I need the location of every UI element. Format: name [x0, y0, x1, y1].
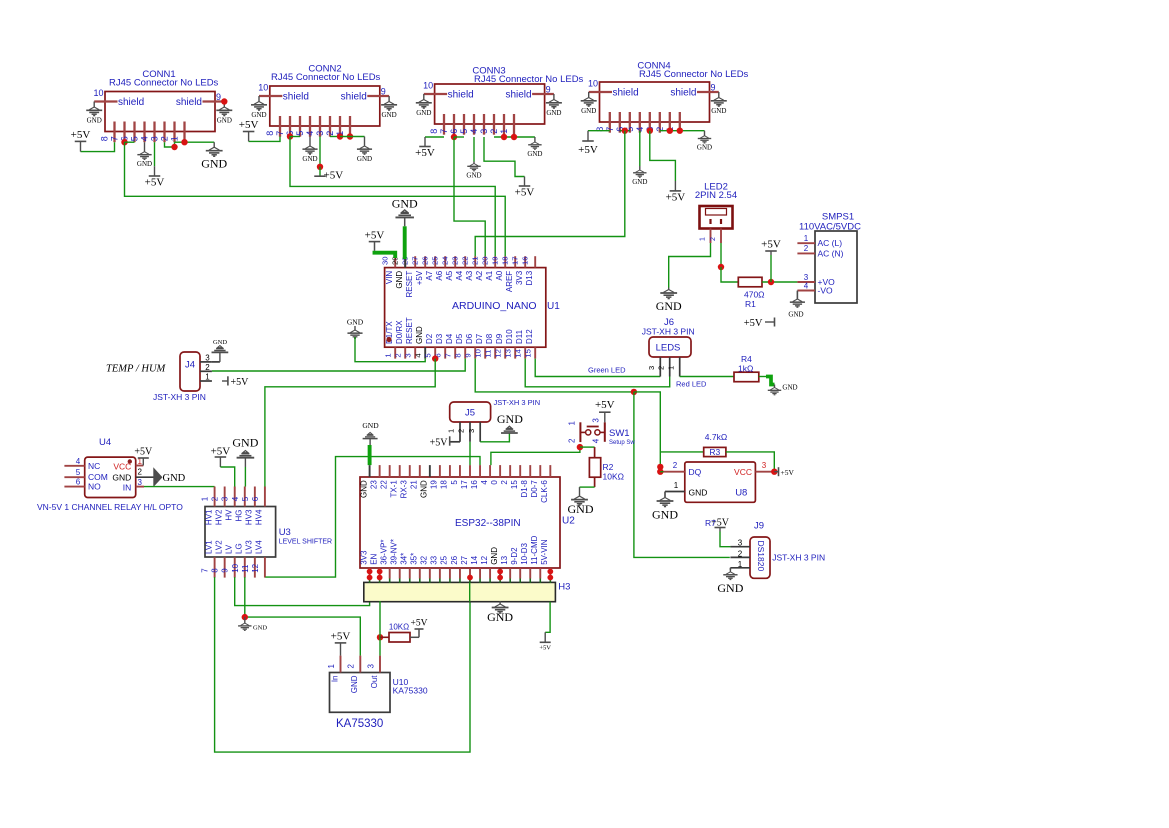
svg-text:shield: shield — [670, 88, 696, 99]
svg-text:35*: 35* — [410, 553, 419, 565]
svg-text:+5V: +5V — [761, 239, 781, 251]
svg-text:3V3: 3V3 — [359, 550, 368, 565]
svg-text:10: 10 — [231, 563, 240, 572]
svg-text:14: 14 — [513, 348, 522, 357]
svg-text:GND: GND — [350, 675, 359, 693]
svg-text:10KΩ: 10KΩ — [603, 472, 624, 482]
svg-text:27: 27 — [410, 256, 419, 265]
svg-text:4: 4 — [231, 496, 240, 501]
svg-text:ESP32--38PIN: ESP32--38PIN — [455, 518, 521, 529]
svg-text:7: 7 — [443, 353, 452, 357]
svg-text:D13: D13 — [525, 270, 534, 285]
svg-text:110VAC/5VDC: 110VAC/5VDC — [799, 222, 861, 233]
svg-text:2: 2 — [138, 468, 143, 477]
svg-text:16: 16 — [520, 256, 529, 265]
svg-text:U2: U2 — [562, 516, 575, 527]
svg-text:U3: U3 — [279, 527, 291, 538]
svg-text:HV3: HV3 — [245, 509, 254, 525]
svg-text:GND: GND — [347, 318, 364, 327]
svg-text:A0: A0 — [495, 270, 504, 280]
svg-text:1: 1 — [804, 234, 809, 243]
svg-text:R4: R4 — [741, 354, 752, 364]
svg-text:GND: GND — [416, 109, 431, 117]
svg-text:10KΩ: 10KΩ — [389, 623, 409, 632]
svg-text:D2: D2 — [425, 333, 434, 344]
svg-text:20: 20 — [480, 256, 489, 265]
svg-text:1: 1 — [170, 136, 180, 141]
svg-text:TX-1: TX-1 — [390, 480, 399, 498]
svg-text:+5V: +5V — [666, 192, 686, 204]
svg-text:26: 26 — [450, 555, 459, 564]
svg-text:IN: IN — [123, 483, 132, 493]
svg-text:NC: NC — [88, 461, 100, 471]
svg-text:D1-8: D1-8 — [520, 480, 529, 498]
svg-text:U1: U1 — [547, 301, 560, 312]
svg-text:EN: EN — [369, 553, 378, 564]
svg-text:1: 1 — [499, 129, 509, 134]
svg-text:0: 0 — [490, 480, 499, 485]
svg-text:GND: GND — [420, 480, 429, 498]
svg-text:A5: A5 — [445, 270, 454, 280]
svg-text:2: 2 — [347, 664, 356, 669]
svg-text:RJ45 Connector No LEDs: RJ45 Connector No LEDs — [271, 72, 381, 83]
svg-text:4: 4 — [592, 438, 601, 443]
svg-text:GND: GND — [362, 421, 379, 430]
svg-text:1: 1 — [447, 429, 456, 433]
svg-text:6: 6 — [251, 496, 260, 501]
svg-text:22: 22 — [379, 480, 388, 489]
svg-text:Out: Out — [370, 675, 379, 689]
svg-text:8: 8 — [100, 136, 110, 141]
svg-text:30: 30 — [380, 256, 389, 265]
svg-text:+5V: +5V — [365, 230, 385, 242]
svg-text:1: 1 — [568, 421, 577, 426]
svg-text:R7: R7 — [705, 518, 716, 528]
svg-text:VCC: VCC — [734, 467, 752, 477]
svg-text:1: 1 — [383, 353, 392, 357]
svg-text:D4: D4 — [445, 333, 454, 344]
svg-text:6: 6 — [449, 129, 459, 134]
svg-text:5: 5 — [130, 136, 140, 141]
svg-text:3: 3 — [479, 129, 489, 134]
svg-text:4: 4 — [305, 131, 315, 136]
svg-text:9: 9 — [221, 568, 230, 573]
svg-text:LV: LV — [225, 544, 234, 554]
svg-text:shield: shield — [118, 97, 144, 108]
svg-text:GND: GND — [395, 271, 404, 289]
svg-text:LV4: LV4 — [255, 540, 264, 554]
svg-text:19: 19 — [430, 480, 439, 489]
svg-text:GND: GND — [568, 502, 594, 516]
svg-text:21: 21 — [410, 480, 419, 489]
svg-text:3: 3 — [205, 354, 210, 363]
svg-text:32: 32 — [420, 555, 429, 564]
svg-text:GND: GND — [711, 107, 726, 115]
svg-text:2: 2 — [205, 363, 210, 372]
svg-text:GND: GND — [546, 109, 561, 117]
svg-text:10: 10 — [588, 79, 598, 89]
svg-text:9: 9 — [381, 87, 386, 97]
svg-text:36-VP*: 36-VP* — [379, 539, 388, 564]
svg-text:2: 2 — [211, 496, 220, 501]
svg-text:2: 2 — [738, 549, 743, 558]
svg-text:GND: GND — [466, 171, 481, 179]
svg-text:AC (L): AC (L) — [818, 238, 843, 248]
svg-text:17: 17 — [460, 480, 469, 489]
svg-text:J9: J9 — [754, 521, 764, 532]
svg-text:HG: HG — [235, 510, 244, 522]
svg-text:23: 23 — [369, 480, 378, 489]
svg-text:3: 3 — [150, 136, 160, 141]
svg-text:2PIN 2.54: 2PIN 2.54 — [695, 190, 737, 201]
svg-text:JST-XH 3 PIN: JST-XH 3 PIN — [494, 398, 541, 407]
svg-text:GND: GND — [497, 412, 523, 426]
svg-text:JST-XH 3 PIN: JST-XH 3 PIN — [772, 553, 825, 563]
svg-text:GND: GND — [788, 311, 803, 319]
svg-text:2: 2 — [160, 136, 170, 141]
svg-text:shield: shield — [505, 90, 531, 101]
svg-text:+5V: +5V — [781, 468, 795, 477]
svg-text:12: 12 — [493, 349, 502, 358]
svg-text:25: 25 — [440, 555, 449, 564]
svg-text:16: 16 — [470, 480, 479, 489]
svg-text:4: 4 — [413, 353, 422, 358]
svg-text:3: 3 — [221, 496, 230, 501]
svg-text:HV1: HV1 — [204, 509, 213, 525]
svg-text:D3: D3 — [435, 333, 444, 344]
svg-text:11: 11 — [483, 350, 492, 358]
svg-text:4: 4 — [76, 457, 81, 466]
svg-text:12: 12 — [480, 555, 489, 564]
svg-text:27: 27 — [460, 555, 469, 564]
svg-text:D0/RX: D0/RX — [395, 320, 404, 344]
svg-text:+5V: +5V — [331, 630, 351, 642]
svg-text:GND: GND — [656, 299, 682, 313]
svg-text:7: 7 — [110, 136, 120, 141]
svg-text:In: In — [330, 676, 339, 683]
svg-text:A6: A6 — [435, 270, 444, 280]
svg-text:TEMP / HUM: TEMP / HUM — [106, 364, 167, 375]
svg-text:D5: D5 — [455, 333, 464, 344]
svg-text:GND: GND — [392, 197, 418, 211]
svg-text:470Ω: 470Ω — [744, 290, 765, 300]
svg-text:24: 24 — [440, 256, 449, 265]
svg-text:12: 12 — [251, 563, 260, 572]
svg-text:Green LED: Green LED — [588, 366, 626, 375]
svg-text:2: 2 — [325, 131, 335, 136]
svg-text:GND: GND — [217, 116, 232, 124]
svg-text:9: 9 — [711, 83, 716, 93]
svg-text:10: 10 — [423, 81, 433, 91]
svg-text:+5V: +5V — [539, 644, 551, 651]
svg-text:VN-5V 1 CHANNEL RELAY H/L OPTO: VN-5V 1 CHANNEL RELAY H/L OPTO — [37, 502, 183, 512]
svg-text:3: 3 — [315, 131, 325, 136]
svg-text:GND: GND — [87, 116, 102, 124]
svg-text:2: 2 — [489, 129, 499, 134]
svg-text:LG: LG — [235, 543, 244, 554]
svg-text:A1: A1 — [485, 270, 494, 280]
svg-text:1: 1 — [674, 481, 679, 490]
svg-text:10: 10 — [473, 349, 482, 358]
svg-text:+5V: +5V — [415, 270, 424, 285]
svg-text:JST-XH 3 PIN: JST-XH 3 PIN — [153, 392, 206, 402]
svg-text:1: 1 — [201, 496, 210, 501]
svg-text:5V-VIN: 5V-VIN — [540, 539, 549, 565]
svg-text:LEDS: LEDS — [656, 343, 681, 354]
svg-text:34*: 34* — [400, 553, 409, 565]
svg-text:8: 8 — [429, 129, 439, 134]
svg-text:D10: D10 — [505, 329, 514, 344]
svg-text:3: 3 — [592, 418, 601, 423]
svg-text:10: 10 — [258, 83, 268, 93]
svg-text:2: 2 — [457, 429, 466, 433]
svg-text:GND: GND — [632, 178, 647, 186]
svg-text:GND: GND — [359, 480, 368, 498]
svg-text:shield: shield — [176, 97, 202, 108]
svg-text:CLK-6: CLK-6 — [540, 480, 549, 503]
svg-text:D7: D7 — [475, 333, 484, 344]
svg-text:5: 5 — [76, 468, 81, 477]
svg-text:shield: shield — [283, 92, 309, 103]
svg-text:NO: NO — [88, 482, 101, 492]
svg-text:2: 2 — [804, 244, 809, 253]
svg-text:VIN: VIN — [385, 271, 394, 285]
svg-text:-VO: -VO — [818, 286, 834, 296]
svg-text:HV4: HV4 — [255, 509, 264, 525]
svg-text:21: 21 — [470, 256, 479, 265]
svg-text:18: 18 — [500, 256, 509, 265]
svg-text:AC (N): AC (N) — [818, 248, 844, 258]
svg-text:15: 15 — [510, 480, 519, 489]
svg-text:15: 15 — [523, 349, 532, 358]
svg-text:LEVEL SHIFTER: LEVEL SHIFTER — [279, 539, 332, 546]
svg-text:Red LED: Red LED — [676, 379, 707, 388]
svg-text:11-CMD: 11-CMD — [530, 535, 539, 564]
svg-text:19: 19 — [490, 256, 499, 265]
svg-text:LV2: LV2 — [214, 540, 223, 554]
svg-text:GND: GND — [697, 144, 712, 152]
svg-text:RJ45 Connector No LEDs: RJ45 Connector No LEDs — [109, 77, 219, 88]
svg-text:3: 3 — [403, 353, 412, 357]
svg-text:J5: J5 — [465, 408, 475, 419]
svg-text:+5V: +5V — [411, 619, 428, 629]
svg-text:R2: R2 — [603, 462, 614, 472]
svg-text:+5V: +5V — [515, 187, 535, 199]
svg-text:RX-3: RX-3 — [400, 480, 409, 499]
svg-text:J4: J4 — [185, 360, 195, 371]
svg-text:5: 5 — [459, 129, 469, 134]
svg-text:1: 1 — [205, 373, 210, 382]
svg-text:D12: D12 — [525, 329, 534, 344]
svg-text:shield: shield — [448, 90, 474, 101]
svg-text:1kΩ: 1kΩ — [738, 364, 753, 374]
svg-text:26: 26 — [420, 256, 429, 265]
svg-text:KA75330: KA75330 — [393, 686, 428, 696]
svg-text:JST-XH 3 PIN: JST-XH 3 PIN — [642, 327, 695, 337]
svg-text:9: 9 — [463, 353, 472, 357]
svg-text:shield: shield — [613, 88, 639, 99]
svg-text:GND: GND — [581, 107, 596, 115]
svg-text:3: 3 — [138, 478, 143, 487]
svg-text:GND: GND — [302, 155, 317, 163]
svg-text:3: 3 — [738, 539, 743, 548]
svg-text:R3: R3 — [709, 447, 720, 457]
svg-text:+5V: +5V — [578, 144, 598, 156]
svg-text:13: 13 — [500, 555, 509, 564]
svg-text:17: 17 — [510, 256, 519, 265]
svg-text:+5V: +5V — [324, 170, 344, 182]
svg-text:A7: A7 — [425, 270, 434, 280]
svg-text:+5V: +5V — [134, 447, 153, 458]
svg-text:Setup Sw: Setup Sw — [609, 440, 635, 446]
svg-text:GND: GND — [357, 155, 372, 163]
svg-text:RJ45 Connector No LEDs: RJ45 Connector No LEDs — [639, 69, 749, 80]
svg-text:9: 9 — [546, 85, 551, 95]
svg-text:HV2: HV2 — [214, 509, 223, 525]
svg-text:GND: GND — [487, 610, 513, 624]
svg-text:D0-7: D0-7 — [530, 480, 539, 498]
svg-text:+5V: +5V — [71, 129, 91, 141]
svg-text:+5V: +5V — [239, 119, 259, 131]
svg-text:5: 5 — [423, 353, 432, 357]
svg-text:AREF: AREF — [505, 271, 514, 292]
svg-text:5: 5 — [450, 480, 459, 485]
svg-text:7: 7 — [439, 129, 449, 134]
svg-text:U4: U4 — [99, 437, 111, 448]
svg-text:SW1: SW1 — [609, 428, 630, 439]
svg-text:+5V: +5V — [211, 446, 231, 458]
svg-text:1: 1 — [327, 664, 336, 669]
svg-text:2: 2 — [673, 461, 678, 470]
svg-text:39-NV*: 39-NV* — [390, 539, 399, 565]
svg-text:18: 18 — [440, 480, 449, 489]
svg-text:GND: GND — [253, 625, 267, 632]
svg-text:+5V: +5V — [145, 177, 165, 189]
svg-text:A4: A4 — [455, 270, 464, 280]
svg-text:23: 23 — [450, 256, 459, 265]
svg-text:8: 8 — [265, 131, 275, 136]
svg-text:ARDUINO_NANO: ARDUINO_NANO — [452, 300, 537, 312]
svg-text:RESET: RESET — [405, 271, 414, 298]
svg-text:DS1820: DS1820 — [756, 541, 766, 572]
svg-text:3: 3 — [366, 664, 375, 669]
svg-text:2: 2 — [710, 237, 717, 241]
svg-text:6: 6 — [76, 478, 81, 487]
svg-text:7: 7 — [201, 568, 210, 573]
svg-text:GND: GND — [382, 111, 397, 119]
svg-text:GND: GND — [163, 473, 186, 484]
svg-text:GND: GND — [251, 111, 266, 119]
svg-text:14: 14 — [470, 555, 479, 564]
svg-text:LV3: LV3 — [245, 540, 254, 554]
svg-text:KA75330: KA75330 — [336, 718, 383, 730]
svg-text:+5V: +5V — [744, 318, 763, 329]
svg-text:D8: D8 — [485, 333, 494, 344]
svg-text:4.7kΩ: 4.7kΩ — [705, 432, 727, 442]
svg-text:9-D2: 9-D2 — [510, 547, 519, 565]
svg-text:7: 7 — [275, 131, 285, 136]
svg-text:H3: H3 — [558, 582, 570, 593]
svg-text:4: 4 — [480, 480, 489, 485]
svg-text:8: 8 — [211, 568, 220, 573]
svg-text:GND: GND — [213, 339, 227, 346]
svg-text:R1: R1 — [745, 299, 756, 309]
svg-text:D6: D6 — [465, 333, 474, 344]
svg-text:4: 4 — [469, 129, 479, 134]
svg-text:+5V: +5V — [415, 147, 435, 159]
svg-text:2: 2 — [568, 438, 577, 443]
svg-text:GND: GND — [652, 508, 678, 522]
svg-text:2: 2 — [393, 353, 402, 357]
svg-text:1: 1 — [666, 366, 675, 370]
svg-text:RESET: RESET — [405, 317, 414, 344]
svg-text:1: 1 — [738, 560, 743, 569]
svg-text:GND: GND — [782, 384, 797, 392]
svg-text:3: 3 — [467, 429, 476, 433]
svg-text:33: 33 — [430, 555, 439, 564]
svg-text:U8: U8 — [735, 488, 747, 499]
svg-text:9: 9 — [216, 92, 221, 102]
svg-text:4: 4 — [804, 281, 809, 290]
svg-text:3: 3 — [762, 461, 767, 470]
svg-text:1: 1 — [700, 237, 707, 241]
svg-text:GND: GND — [232, 436, 258, 450]
svg-text:13: 13 — [503, 349, 512, 358]
svg-text:GND: GND — [689, 488, 708, 498]
svg-text:D11: D11 — [515, 329, 524, 344]
svg-text:D9: D9 — [495, 333, 504, 344]
svg-text:8: 8 — [453, 353, 462, 357]
svg-text:4: 4 — [140, 136, 150, 141]
svg-text:5: 5 — [241, 496, 250, 501]
svg-text:22: 22 — [460, 256, 469, 265]
svg-text:GND: GND — [112, 473, 131, 483]
svg-text:A3: A3 — [465, 270, 474, 280]
svg-text:+5V: +5V — [595, 399, 615, 411]
svg-text:GND: GND — [201, 157, 227, 171]
svg-text:A2: A2 — [475, 270, 484, 280]
svg-text:GND: GND — [415, 326, 424, 344]
svg-text:HV: HV — [225, 509, 234, 521]
svg-text:GND: GND — [717, 581, 743, 595]
svg-text:3: 3 — [647, 366, 656, 370]
svg-text:GND: GND — [490, 547, 499, 565]
svg-text:GND: GND — [137, 160, 152, 168]
svg-text:2: 2 — [656, 366, 665, 370]
svg-text:shield: shield — [341, 92, 367, 103]
svg-text:10: 10 — [93, 88, 103, 98]
svg-text:10-D3: 10-D3 — [520, 542, 529, 564]
svg-text:11: 11 — [241, 564, 250, 573]
svg-text:RJ45 Connector No LEDs: RJ45 Connector No LEDs — [474, 74, 584, 85]
svg-text:GND: GND — [527, 150, 542, 158]
svg-text:+5V: +5V — [231, 377, 250, 388]
svg-text:3V3: 3V3 — [515, 270, 524, 285]
svg-text:+5V: +5V — [430, 438, 449, 449]
svg-text:DQ: DQ — [689, 467, 702, 477]
svg-text:LV1: LV1 — [204, 540, 213, 554]
svg-text:2: 2 — [500, 480, 509, 485]
svg-text:5: 5 — [295, 131, 305, 136]
svg-text:25: 25 — [430, 256, 439, 265]
